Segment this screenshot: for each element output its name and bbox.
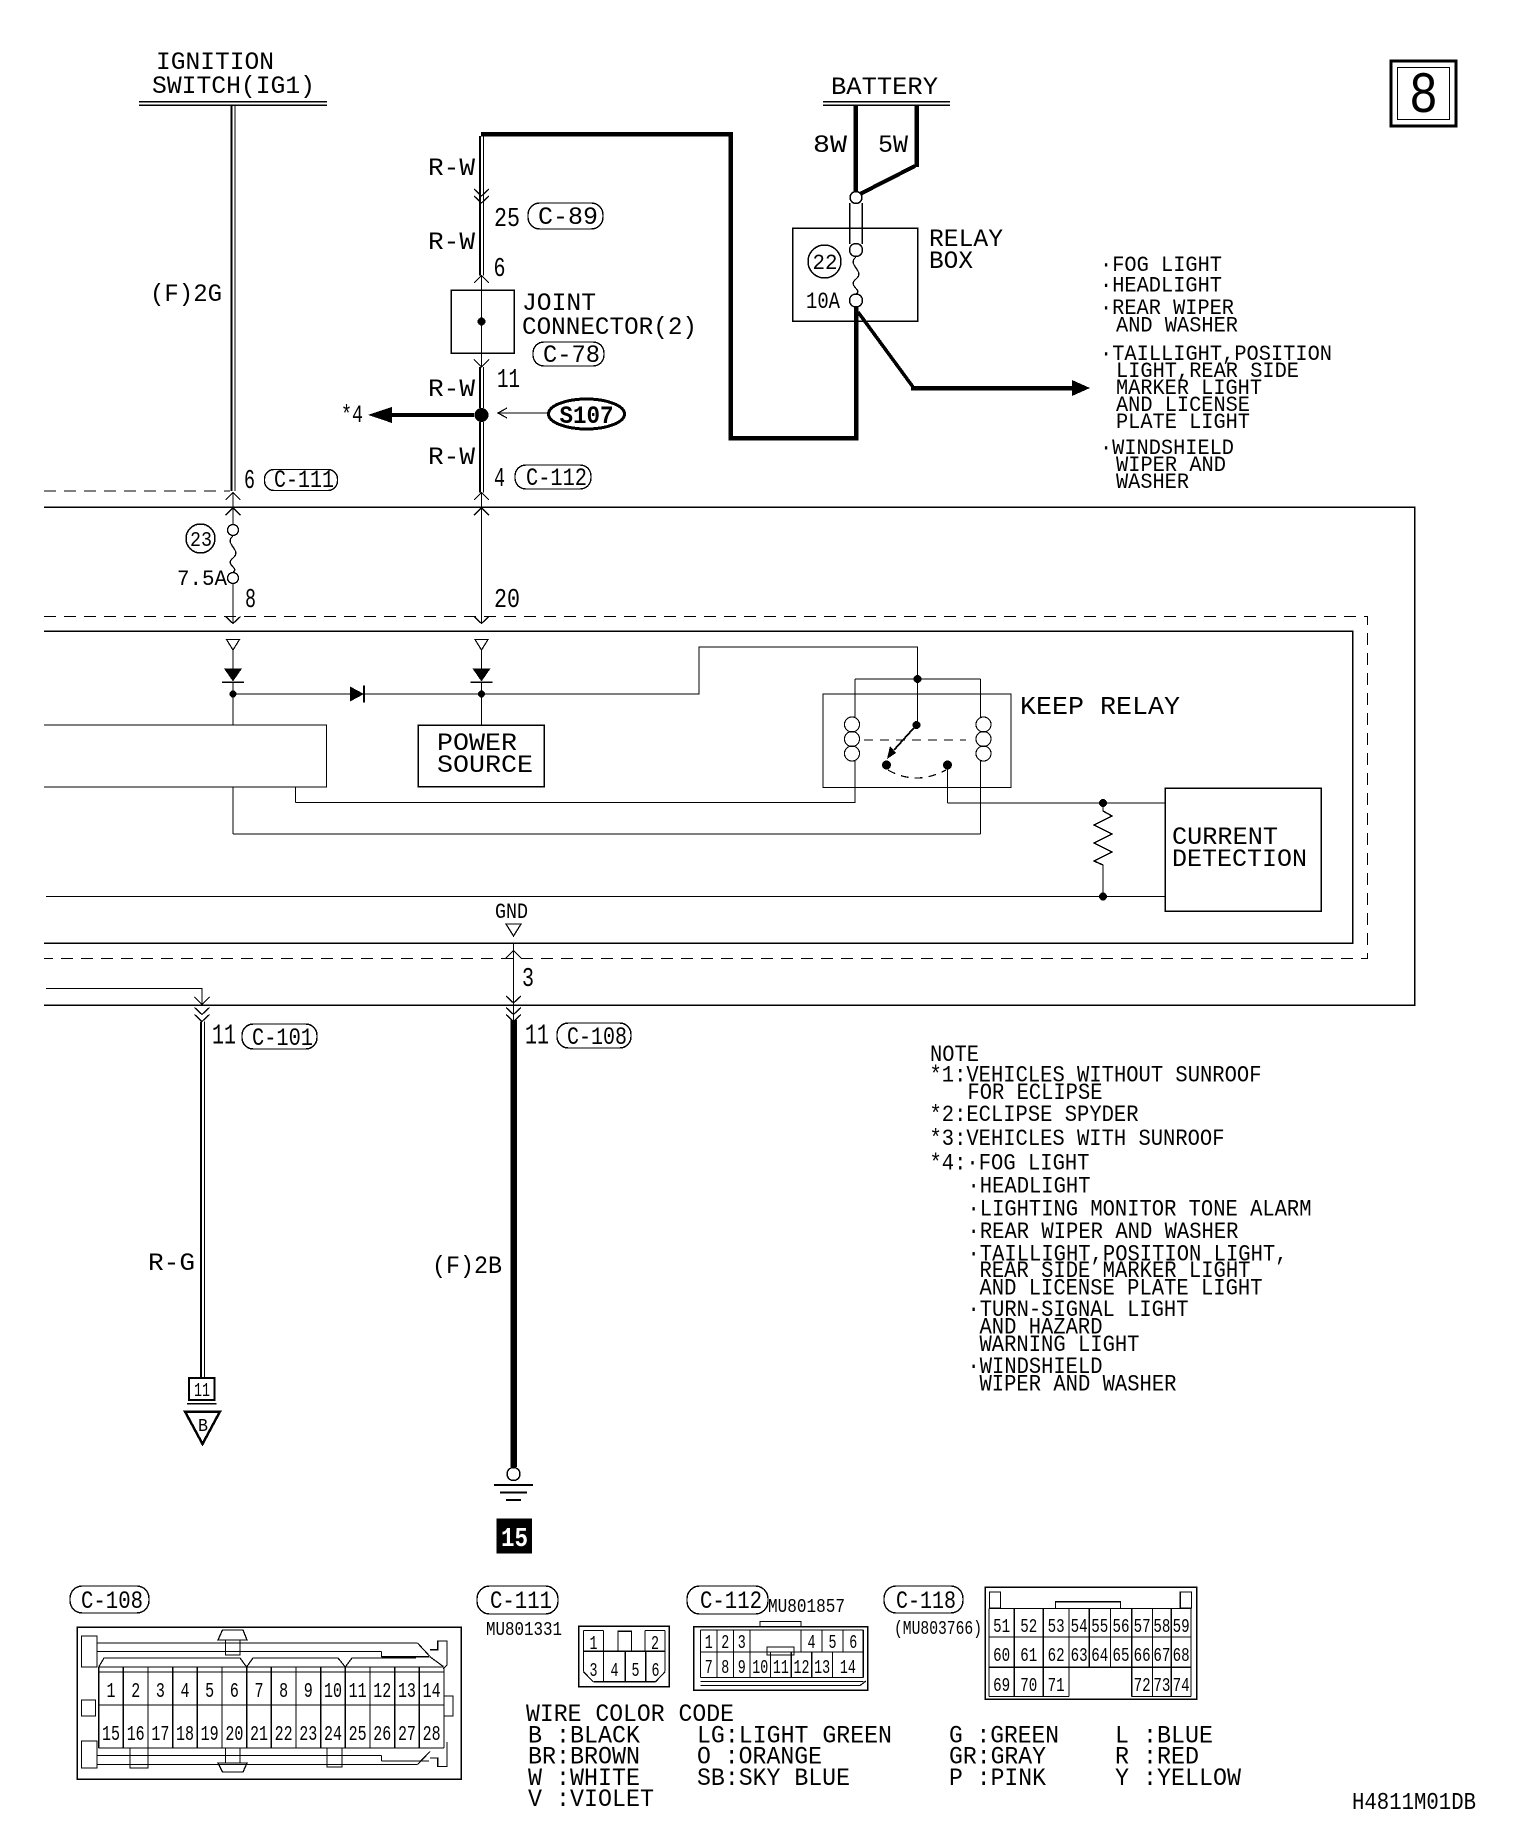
svg-text:SB:SKY BLUE: SB:SKY BLUE: [697, 1764, 850, 1793]
svg-text:BATTERY: BATTERY: [831, 73, 938, 102]
ignition switch bus bar: [139, 101, 327, 103]
svg-text:11: 11: [525, 1020, 549, 1053]
wire to *4 systems: [392, 413, 474, 417]
connector C-108 crossing: [513, 1005, 515, 1022]
svg-text:2: 2: [131, 1681, 140, 1704]
svg-text:11: 11: [194, 1380, 210, 1402]
svg-text:12: 12: [794, 1657, 810, 1679]
svg-text:WASHER: WASHER: [1116, 469, 1189, 495]
connector label C-78: [533, 342, 604, 366]
svg-text:54: 54: [1071, 1616, 1088, 1638]
svg-text:11: 11: [773, 1657, 789, 1679]
svg-text:56: 56: [1113, 1616, 1130, 1638]
svg-text:26: 26: [373, 1724, 391, 1747]
GND symbol: [506, 924, 521, 936]
fuse 23 circled number: [186, 524, 215, 553]
svg-text:8: 8: [245, 586, 256, 616]
wire (F)2G ignition switch to C-111: [230, 105, 232, 491]
svg-text:BOX: BOX: [929, 247, 973, 276]
ground ref B triangle: [185, 1412, 220, 1445]
terminal pair C-111 wire: [227, 640, 240, 651]
svg-text:C-111: C-111: [490, 1587, 552, 1616]
svg-text:R-W: R-W: [428, 228, 475, 257]
relay coil L2: [980, 679, 982, 717]
svg-text:52: 52: [1020, 1616, 1037, 1638]
connector C-112 drawing: [694, 1627, 868, 1691]
wire sub-module to relay coil return: [232, 787, 234, 834]
wire to current detection: [948, 802, 1166, 804]
svg-text:7: 7: [254, 1681, 263, 1704]
svg-text:10: 10: [752, 1657, 768, 1679]
svg-text:C-112: C-112: [700, 1587, 762, 1616]
svg-text:AND WASHER: AND WASHER: [1116, 313, 1238, 339]
svg-text:14: 14: [840, 1657, 856, 1679]
svg-text:13: 13: [398, 1681, 416, 1704]
svg-text:19: 19: [201, 1724, 219, 1747]
svg-text:11: 11: [349, 1681, 367, 1704]
svg-text:25: 25: [494, 205, 520, 235]
relay switch arm: [913, 721, 921, 729]
connector C-101 crossing: [195, 1008, 210, 1015]
relay contact left: [882, 761, 891, 770]
svg-text:2: 2: [651, 1633, 659, 1655]
joint connector (2) box: [451, 290, 514, 353]
thick battery feed wire: [481, 134, 856, 438]
resistor R1: [1094, 807, 1112, 869]
svg-text:V :VIOLET: V :VIOLET: [528, 1785, 654, 1814]
wire contact to detection bus: [947, 769, 949, 803]
connector C-118 drawing: [985, 1587, 1197, 1699]
svg-text:8: 8: [1409, 65, 1438, 130]
svg-text:57: 57: [1134, 1616, 1151, 1638]
svg-text:4: 4: [808, 1632, 816, 1654]
svg-text:MU801331: MU801331: [486, 1619, 562, 1641]
svg-text:9: 9: [738, 1657, 746, 1679]
svg-text:1: 1: [705, 1632, 713, 1654]
diode D1: [233, 693, 482, 695]
svg-text:13: 13: [814, 1657, 830, 1679]
wire R-G: [200, 1022, 202, 1379]
svg-text:64: 64: [1091, 1645, 1108, 1667]
svg-text:1: 1: [590, 1633, 598, 1655]
svg-text:DETECTION: DETECTION: [1172, 845, 1307, 874]
connector label C-101: [242, 1024, 317, 1049]
svg-text:74: 74: [1173, 1675, 1190, 1697]
svg-text:2: 2: [721, 1632, 729, 1654]
fuse 22 element: [853, 257, 859, 294]
svg-text:7: 7: [705, 1657, 713, 1679]
svg-text:73: 73: [1153, 1675, 1170, 1697]
fuse 22 circled number: [808, 245, 841, 278]
svg-text:SWITCH(IG1): SWITCH(IG1): [152, 72, 315, 101]
svg-text:(F)2B: (F)2B: [432, 1252, 502, 1281]
dashed inner module boundary: [44, 617, 1368, 959]
svg-text:C-78: C-78: [543, 341, 600, 370]
wire to keep relay switch: [482, 647, 918, 725]
svg-text:5: 5: [205, 1681, 214, 1704]
svg-text:9: 9: [304, 1681, 313, 1704]
svg-text:6: 6: [494, 255, 506, 285]
gnd wire pin 3: [513, 943, 515, 1005]
connector crossing chevrons C-111: [226, 493, 241, 501]
svg-text:10: 10: [324, 1681, 342, 1704]
svg-text:5: 5: [829, 1632, 837, 1654]
connector C-108 drawing: [77, 1627, 461, 1779]
keep relay box: [823, 694, 1011, 788]
svg-text:11: 11: [497, 366, 520, 396]
relay coil L1: [854, 679, 856, 717]
svg-text:17: 17: [151, 1724, 169, 1747]
dashed boundary upper left: [44, 490, 230, 492]
wire R-W from feed to joint connector: [479, 136, 481, 276]
svg-text:22: 22: [813, 251, 838, 276]
pin 11 joint connector: [481, 353, 483, 367]
svg-text:55: 55: [1091, 1616, 1108, 1638]
svg-text:7.5A: 7.5A: [177, 567, 228, 592]
svg-text:WIPER AND WASHER: WIPER AND WASHER: [980, 1372, 1177, 1398]
svg-text:68: 68: [1173, 1645, 1190, 1667]
svg-text:69: 69: [993, 1675, 1010, 1697]
svg-text:6: 6: [849, 1632, 857, 1654]
svg-text:14: 14: [423, 1681, 441, 1704]
svg-text:(F)2G: (F)2G: [150, 280, 222, 309]
inner module box: [44, 631, 1353, 943]
svg-text:20: 20: [225, 1724, 243, 1747]
svg-text:8: 8: [279, 1681, 288, 1704]
svg-text:28: 28: [423, 1724, 441, 1747]
svg-text:S107: S107: [560, 402, 614, 431]
fuse 23 wire: [232, 507, 234, 525]
svg-text:70: 70: [1020, 1675, 1037, 1697]
svg-text:61: 61: [1020, 1645, 1037, 1667]
svg-text:C-118: C-118: [896, 1587, 956, 1616]
relay top bus: [855, 678, 981, 680]
svg-text:KEEP RELAY: KEEP RELAY: [1020, 692, 1180, 722]
connector label C-108 inline: [557, 1023, 631, 1048]
fusible link 5W wire: [914, 105, 919, 167]
svg-text:H4811M01DB: H4811M01DB: [1352, 1790, 1476, 1817]
S107 oval label: [549, 399, 625, 429]
svg-text:60: 60: [993, 1645, 1010, 1667]
svg-text:B: B: [198, 1417, 208, 1437]
svg-text:5W: 5W: [878, 131, 908, 160]
wire (F)2B: [510, 1020, 517, 1467]
connector label C-111 inline: [265, 470, 338, 491]
svg-text:23: 23: [190, 530, 212, 553]
svg-text:16: 16: [127, 1724, 145, 1747]
svg-text:51: 51: [993, 1616, 1010, 1638]
svg-text:15: 15: [102, 1724, 120, 1747]
svg-text:4: 4: [494, 465, 505, 495]
connector C-111 label: [477, 1586, 558, 1614]
svg-text:53: 53: [1048, 1616, 1065, 1638]
svg-text:71: 71: [1048, 1675, 1065, 1697]
page reference 8 box: [1391, 61, 1456, 126]
svg-text:10A: 10A: [806, 289, 840, 315]
svg-text:6: 6: [230, 1681, 239, 1704]
svg-text:Y :YELLOW: Y :YELLOW: [1115, 1764, 1241, 1793]
svg-text:21: 21: [250, 1724, 268, 1747]
svg-text:63: 63: [1071, 1645, 1088, 1667]
svg-text:CONNECTOR(2): CONNECTOR(2): [522, 313, 697, 342]
coil return wire lower: [233, 833, 981, 835]
svg-text:65: 65: [1113, 1645, 1130, 1667]
svg-text:6: 6: [244, 467, 255, 497]
svg-text:5: 5: [632, 1660, 640, 1682]
relay contact travel arc dashed: [888, 770, 946, 778]
svg-text:59: 59: [1173, 1616, 1190, 1638]
wire 20 inside ETACS: [481, 507, 483, 624]
connector crossing chevrons C-112: [474, 493, 489, 501]
junction node B: [478, 691, 485, 698]
connector label C-112 inline: [515, 465, 591, 489]
svg-text:66: 66: [1134, 1645, 1151, 1667]
svg-text:*3:VEHICLES WITH SUNROOF: *3:VEHICLES WITH SUNROOF: [930, 1126, 1225, 1152]
svg-text:PLATE LIGHT: PLATE LIGHT: [1116, 409, 1250, 435]
S107 pointer arrow: [499, 412, 548, 414]
connector C-112 label: [687, 1586, 768, 1614]
connector C-111 drawing: [579, 1626, 669, 1687]
hatched link 5W to fuse: [860, 166, 915, 194]
svg-text:SOURCE: SOURCE: [437, 751, 533, 780]
svg-text:4: 4: [611, 1660, 619, 1682]
hatched arrow from relay box: [858, 312, 913, 387]
svg-text:*2:ECLIPSE SPYDER: *2:ECLIPSE SPYDER: [930, 1102, 1139, 1128]
svg-text:3: 3: [156, 1681, 165, 1704]
ground return bus: [46, 896, 1165, 898]
coil return wire upper: [296, 802, 856, 804]
svg-text:25: 25: [349, 1724, 367, 1747]
current detection box: [1165, 788, 1321, 911]
splice S107: [475, 408, 489, 422]
relay contact right: [943, 761, 952, 770]
svg-text:12: 12: [373, 1681, 391, 1704]
ETACS unit outer box: [44, 507, 1415, 1005]
svg-text:4: 4: [181, 1681, 190, 1704]
svg-text:27: 27: [398, 1724, 416, 1747]
connector C-108 label: [70, 1586, 149, 1613]
svg-text:C-101: C-101: [252, 1024, 313, 1053]
svg-text:24: 24: [324, 1724, 342, 1747]
relay mechanical link dashed: [864, 739, 966, 741]
connector arrow 25 C-89: [474, 189, 489, 196]
connector C-118 label: [884, 1586, 963, 1613]
wire to C-101: [46, 989, 202, 1006]
svg-text:*4: *4: [341, 401, 363, 430]
svg-text:3: 3: [590, 1660, 598, 1682]
svg-text:8W: 8W: [813, 131, 847, 160]
connector label C-89: [528, 203, 603, 229]
junction node A: [230, 691, 237, 698]
terminal 11 box: [189, 1378, 215, 1400]
svg-text:P :PINK: P :PINK: [949, 1764, 1046, 1793]
svg-text:GND: GND: [495, 900, 528, 925]
relay box: [793, 228, 918, 321]
terminal pair C-112 wire: [475, 640, 488, 651]
svg-text:62: 62: [1048, 1645, 1065, 1667]
svg-text:22: 22: [275, 1724, 293, 1747]
svg-text:C-89: C-89: [538, 203, 598, 232]
page reference 15: [497, 1519, 532, 1553]
svg-text:67: 67: [1153, 1645, 1170, 1667]
pin 6 joint connector: [474, 276, 489, 284]
svg-text:18: 18: [176, 1724, 194, 1747]
svg-text:MU801857: MU801857: [768, 1596, 845, 1618]
arrow to light systems: [911, 386, 1072, 391]
battery bus bar: [823, 101, 950, 103]
svg-text:C-108: C-108: [81, 1587, 143, 1616]
fusible link 8W wire: [853, 105, 858, 192]
fusible link capsule: [850, 192, 862, 204]
svg-text:58: 58: [1153, 1616, 1170, 1638]
svg-text:C-111: C-111: [274, 466, 334, 495]
svg-text:11: 11: [212, 1020, 236, 1053]
svg-text:C-112: C-112: [526, 464, 587, 493]
svg-text:20: 20: [494, 586, 520, 616]
svg-text:15: 15: [501, 1525, 528, 1555]
svg-text:8: 8: [721, 1657, 729, 1679]
svg-text:(MU803766): (MU803766): [894, 1618, 982, 1640]
svg-text:1: 1: [107, 1681, 116, 1704]
svg-text:C-108: C-108: [567, 1023, 627, 1052]
chassis ground: [507, 1468, 520, 1481]
power source box: [418, 725, 544, 787]
svg-text:72: 72: [1134, 1675, 1151, 1697]
sub-module box left: [44, 725, 327, 787]
svg-text:R-W: R-W: [428, 443, 475, 472]
wire node A to sub-module: [232, 694, 234, 725]
svg-text:R-W: R-W: [428, 154, 475, 183]
svg-text:R-W: R-W: [428, 375, 475, 404]
svg-text:3: 3: [738, 1632, 746, 1654]
svg-text:3: 3: [522, 965, 534, 995]
svg-text:R-G: R-G: [148, 1249, 195, 1278]
svg-text:23: 23: [299, 1724, 317, 1747]
svg-text:6: 6: [652, 1660, 660, 1682]
wire joint connector to splice: [479, 367, 481, 408]
wire splice to C-112: [479, 422, 481, 493]
